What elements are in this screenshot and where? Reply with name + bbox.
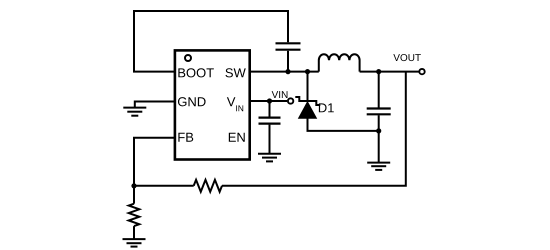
pin label FB [178, 133, 193, 142]
wire VIN pin to input terminal [250, 100, 287, 102]
wire output cap to ground [378, 115, 380, 162]
pin label SW [225, 68, 245, 77]
resistor R2 (divider lower, vertical) [129, 204, 140, 226]
label VOUT [393, 54, 421, 61]
wire FB pin to feedback node [134, 138, 175, 186]
node SW (diode junction) [305, 69, 310, 74]
wire inductor to VOUT terminal [360, 71, 420, 73]
wire feedback node to resistor R2 [133, 186, 135, 204]
wire BOOT loop (BOOT pin left, up, across top, down to boot cap) [134, 11, 288, 72]
pin label BOOT [178, 68, 213, 77]
capacitor C1 (boot capacitor) [276, 43, 301, 49]
node VOUT (output cap junction) [376, 69, 381, 74]
node output ground junction [376, 128, 381, 133]
pin label EN [229, 133, 245, 142]
wire VIN node to input cap [269, 101, 271, 117]
wire feedback node to resistor R1 [134, 185, 194, 187]
diode D1 (schottky cathode bar) [295, 97, 320, 105]
wire SW node to diode cathode [307, 72, 309, 101]
wire resistor R2 to ground [133, 226, 135, 239]
node FB divider junction [131, 183, 136, 188]
wire boot cap to SW node [287, 51, 289, 72]
capacitor C2 (input capacitor) [259, 118, 281, 124]
pin 1 indicator circle [185, 55, 191, 61]
resistor R1 (feedback, horizontal) [194, 180, 222, 192]
pin label GND [178, 97, 206, 106]
wire diode anode to output ground node [308, 118, 380, 131]
ground (input cap) [258, 154, 281, 162]
pin label VIN with subscript [227, 97, 243, 111]
wire VOUT node to output cap [378, 72, 380, 108]
wire SW pin to inductor [250, 71, 319, 73]
label D1 [319, 103, 334, 112]
ground (GND pin) [123, 108, 146, 116]
capacitor C3 (output capacitor) [367, 109, 391, 115]
ground (output cap) [367, 163, 390, 170]
wire input cap to ground [269, 125, 271, 154]
ground (R2) [123, 239, 146, 247]
node SW (boot cap junction) [285, 69, 290, 74]
node VIN (input cap junction) [267, 98, 272, 103]
label VIN [272, 91, 288, 98]
wire GND pin to ground [135, 102, 175, 108]
op-amp U1 (regulator IC body) [175, 50, 250, 159]
terminal VIN [288, 98, 293, 103]
wire resistor R1 to VOUT line [222, 72, 406, 186]
terminal VOUT [419, 69, 424, 74]
inductor L1 [319, 54, 360, 71]
diode D1 (triangle) [299, 102, 317, 118]
